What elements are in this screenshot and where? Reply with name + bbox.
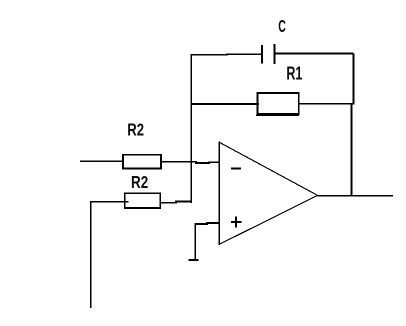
capacitor C left plate <box>261 45 263 64</box>
op-amp non-inverting (+) marker horizontal <box>231 221 242 223</box>
svg-text:R2: R2 <box>131 172 148 192</box>
resistor R1 body <box>258 93 299 114</box>
wire: input 1 lead <box>80 160 124 162</box>
wire: output <box>318 195 394 197</box>
wire: input 2 horizontal lead <box>91 201 129 203</box>
wire: capacitor branch right vertical <box>353 53 355 104</box>
op-amp U1 triangle <box>219 141 317 245</box>
wire: top feedback, right segment from capacitor <box>275 52 354 54</box>
resistor R2 (upper) body <box>123 155 161 169</box>
resistor R2 (lower) body <box>125 193 161 208</box>
wire: R2 upper to inverting input <box>161 162 219 163</box>
wire: R2 lower to inverting node <box>160 201 192 202</box>
capacitor C right plate <box>274 44 276 64</box>
wire: feedback vertical down to output node <box>351 104 353 196</box>
op-amp non-inverting (+) marker vertical <box>235 216 237 227</box>
wire: ground stem <box>194 223 196 259</box>
svg-text:C: C <box>278 16 286 36</box>
wire: node to resistor R1 <box>191 103 259 105</box>
wire: R1 to feedback corner <box>299 103 353 105</box>
svg-text:R2: R2 <box>127 120 144 140</box>
op-amp inverting (-) marker <box>231 167 241 169</box>
wire: non-inverting input <box>195 223 219 224</box>
wire: input 2 vertical lead <box>90 201 92 308</box>
wire: top feedback, left segment to capacitor <box>191 53 263 56</box>
resistor R1 bottom overdraw <box>256 114 299 116</box>
ground symbol bar <box>188 259 198 261</box>
wire: inverting-node vertical bus <box>190 54 192 203</box>
svg-text:R1: R1 <box>286 63 302 84</box>
